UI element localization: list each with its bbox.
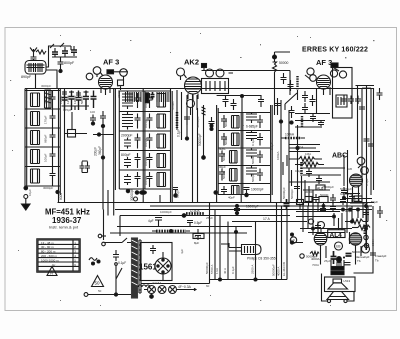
magic eye circle 1: [357, 157, 365, 165]
top circle AF3r 4: [331, 66, 347, 78]
transformer box: [141, 243, 210, 284]
bank3 upper wire: [217, 95, 261, 113]
speaker magnet: [333, 279, 342, 283]
fuse 3: [169, 286, 177, 294]
bank2 cell2 cap: [135, 114, 141, 129]
lamp vert 3: [215, 216, 220, 280]
tube AF3 left: [99, 75, 113, 95]
grid circle AF3 left 2: [86, 73, 93, 80]
det upper cap: [310, 114, 316, 123]
svg-text:5000pF: 5000pF: [290, 189, 294, 199]
svg-text:Tb: Tb: [375, 259, 379, 263]
svg-text:AK2: AK2: [184, 58, 199, 67]
transformer top cap: [150, 245, 156, 254]
bus y202: [58, 202, 375, 204]
bank1 terminal: [24, 195, 28, 199]
output resistor zig2: [352, 225, 370, 230]
bank3 cell1r: [246, 113, 263, 129]
svg-text:0.5μF: 0.5μF: [365, 178, 369, 186]
bus cap 4uF: [148, 218, 162, 227]
screen box AF3 left: [118, 80, 124, 90]
svg-text:0.04μF: 0.04μF: [144, 156, 148, 166]
svg-text:EB: EB: [336, 245, 340, 249]
svg-text:17 A: 17 A: [263, 217, 271, 221]
det hlines: [289, 168, 345, 190]
svg-text:2x0.5A: 2x0.5A: [152, 281, 161, 285]
avc bus a: [279, 100, 282, 203]
bank1 cap 5: [43, 167, 56, 191]
lamp vert 8: [277, 206, 282, 280]
speaker cone upper: [328, 283, 348, 289]
transformer core: [132, 238, 138, 298]
svg-text:125pF: 125pF: [66, 95, 70, 104]
out circle small d: [308, 219, 313, 224]
out cap e: [315, 222, 321, 233]
svg-text:4000 A: 4000 A: [277, 267, 281, 276]
far right vert 1: [357, 85, 359, 155]
svg-text:25μF: 25μF: [206, 216, 213, 220]
bank2 cell3r: [147, 134, 166, 149]
small circle EBa: [335, 242, 343, 250]
lamp vert 6: [251, 222, 256, 280]
svg-text:Philips C8 350-355: Philips C8 350-355: [247, 257, 276, 261]
out vert tubes wires: [347, 203, 368, 234]
bank1 coil cell 2: [31, 112, 40, 126]
bus y221: [232, 217, 307, 222]
bank3 mid bus: [241, 113, 243, 203]
svg-text:2500 A: 2500 A: [251, 265, 255, 274]
output caps top: [320, 194, 336, 211]
dark cap lamp8: [284, 199, 290, 210]
bank2 cell2 coil: [122, 112, 133, 130]
bank2 cell2r coil: [157, 114, 166, 128]
mains switch: [115, 238, 131, 295]
avc cap c: [302, 103, 308, 114]
warning triangle A: [47, 267, 57, 276]
bank1 coil cell 4: [31, 150, 40, 164]
svg-text:D-50A: D-50A: [190, 209, 200, 213]
det upper cap2: [318, 121, 324, 129]
bank2 cell4 coilcap: [124, 153, 141, 168]
output wires top: [290, 203, 318, 245]
osc switch circle 2: [216, 69, 224, 77]
interbank wire A: [64, 89, 66, 203]
rectifier tube: [155, 252, 171, 280]
svg-text:100kA: 100kA: [276, 151, 280, 160]
out comp cluster c: [340, 196, 346, 205]
svg-text:AF 3: AF 3: [103, 58, 119, 67]
svg-text:1000-2000 m: 1000-2000 m: [41, 258, 59, 262]
svg-text:ABC: ABC: [332, 153, 347, 160]
fuse 1: [148, 286, 156, 294]
capacitor 800pF with lead: [58, 57, 75, 73]
bank2 cell1r cap: [147, 93, 153, 108]
svg-text:200pF: 200pF: [94, 147, 98, 156]
bank2 cell1 coil: [122, 91, 133, 109]
svg-text:0.04μF: 0.04μF: [144, 118, 148, 128]
caps mid right a: [302, 91, 308, 102]
svg-text:0.04μF: 0.04μF: [144, 137, 148, 147]
lamp vert 5: [231, 227, 237, 280]
svg-text:40 A: 40 A: [223, 268, 227, 274]
svg-text:80 - 200 m: 80 - 200 m: [41, 250, 56, 254]
wire right top: [275, 52, 291, 115]
avc vertical 1: [275, 98, 281, 115]
dotted resistor mid top: [273, 52, 289, 78]
right bottom vert2: [354, 206, 387, 273]
fuse 2: [158, 286, 166, 294]
output small box: [319, 197, 328, 208]
svg-text:50: 50: [95, 281, 101, 286]
out dots: [312, 215, 368, 230]
mains wire: [88, 242, 131, 296]
bank3 frame: [218, 113, 270, 195]
svg-text:200A: 200A: [371, 239, 375, 246]
svg-text:170pF: 170pF: [44, 115, 48, 124]
tube AK2: [185, 77, 202, 100]
right bottom vert: [363, 210, 369, 250]
det wires down: [344, 150, 359, 203]
right det extra segs: [345, 194, 372, 211]
far right top cap: [377, 88, 383, 100]
svg-text:3000pF: 3000pF: [43, 186, 53, 190]
transformer primary winding: [139, 240, 141, 293]
avc cap b: [289, 106, 295, 124]
avc lines: [289, 145, 320, 152]
warning triangle 50: [92, 276, 104, 287]
misc tiny labels: [28, 84, 375, 293]
interbank cap w dot: [90, 115, 96, 126]
det caps under tube2: [349, 193, 355, 202]
tube output2: [349, 233, 361, 252]
bank2 cell4r: [147, 153, 166, 168]
band filter box: [25, 61, 46, 75]
ground: [22, 199, 31, 211]
pre AF3r resistor: [296, 76, 298, 100]
lamp vert 7: [272, 203, 277, 280]
bank2 left column cap 360pF: [98, 111, 108, 216]
svg-text:0.1μF: 0.1μF: [231, 266, 235, 274]
right mid caps: [371, 200, 383, 218]
table: [37, 239, 80, 272]
bank3 cell2r: [246, 131, 263, 147]
IF coil core bank2: [145, 93, 149, 103]
power left wires: [104, 195, 161, 240]
far right screen caps row: [341, 96, 361, 105]
svg-text:100pF: 100pF: [44, 153, 48, 162]
pickup squiggle: [89, 258, 100, 265]
svg-text:30pF: 30pF: [219, 165, 226, 169]
box KY1: [193, 234, 204, 239]
output transformer: [331, 260, 344, 275]
bank labels extra: [59, 89, 228, 185]
svg-text:10000pF: 10000pF: [251, 188, 264, 192]
det small caps row2: [316, 175, 322, 184]
bank3 cell4: [219, 165, 237, 181]
out wire right verticals: [334, 213, 350, 244]
svg-text:1 kA: 1 kA: [215, 268, 219, 274]
bank2 cell1r coil: [157, 94, 166, 108]
AK2 resistor 0.1: [177, 112, 181, 137]
tube AL4: [314, 222, 327, 253]
bank2 mid bus: [143, 89, 145, 203]
bank3 bottom cap: [244, 188, 264, 197]
far right vert 2: [359, 88, 365, 200]
svg-text:Instr. remn.& pvt: Instr. remn.& pvt: [49, 225, 79, 230]
svg-text:50000: 50000: [224, 136, 228, 145]
avc zigzag resistor: [289, 157, 324, 168]
junction dots bus: [234, 204, 259, 214]
svg-text:800pF: 800pF: [176, 189, 180, 198]
bank2 cell2r cap: [147, 114, 153, 129]
output resistor zig1: [345, 219, 368, 224]
svg-text:100kA: 100kA: [285, 133, 295, 137]
svg-text:0.1μF: 0.1μF: [270, 142, 274, 150]
top cap circle TC: [120, 69, 128, 80]
lamp vert 2: [210, 210, 215, 280]
det upper lines: [295, 114, 330, 128]
bus cap right: [187, 221, 202, 228]
interbank L box: [65, 112, 88, 137]
bank3 cap pair top: [209, 117, 215, 131]
mains terminal: [84, 293, 88, 297]
bank2 cell5r: [147, 172, 166, 187]
divider resistor a: [152, 230, 190, 233]
bank3 cell4r: [246, 166, 263, 182]
svg-text:2000pF: 2000pF: [121, 134, 133, 138]
svg-text:125pF: 125pF: [73, 95, 77, 104]
svg-text:4μF: 4μF: [148, 219, 154, 223]
svg-text:Tb: Tb: [357, 259, 361, 263]
output caps mid: [331, 251, 352, 264]
wire antenna to top bus: [46, 46, 71, 67]
svg-text:40pF: 40pF: [219, 147, 226, 151]
det tube: [350, 174, 363, 187]
svg-text:25μF: 25μF: [324, 259, 331, 263]
bank3 cell3r: [246, 148, 263, 164]
bank3 cell1: [221, 115, 239, 128]
lamp vert 1: [205, 203, 210, 280]
bank1 cap 2: [44, 109, 56, 128]
svg-text:Gr: Gr: [52, 263, 55, 267]
LF circle: [290, 233, 296, 243]
grid circle AF3r 2: [305, 75, 316, 82]
svg-text:200 - 600 m: 200 - 600 m: [41, 254, 58, 258]
mains cap: [113, 250, 126, 265]
svg-text:6-685pF: 6-685pF: [246, 125, 258, 129]
far right vert 5: [358, 86, 374, 191]
caps mid right b: [310, 95, 316, 106]
ballast lamp: [242, 245, 262, 255]
bus y226: [117, 226, 252, 228]
label AL4: [328, 230, 345, 238]
bank1 coil cell 1: [31, 93, 40, 107]
svg-text:25000μF: 25000μF: [322, 185, 334, 189]
svg-text:500pF: 500pF: [80, 95, 84, 104]
svg-text:50000pF: 50000pF: [272, 264, 276, 276]
svg-text:3000pF: 3000pF: [41, 84, 51, 88]
speaker zig left: [310, 252, 320, 262]
magic eye circle 2: [358, 165, 368, 174]
AK2 cap a: [184, 117, 190, 125]
out cluster box2: [297, 200, 304, 210]
svg-text:50000pF: 50000pF: [352, 250, 364, 254]
bank3 left bus: [217, 105, 219, 203]
far right vert 4: [368, 88, 374, 195]
bank2 cell5 coilcap: [124, 172, 141, 187]
svg-text:50μF: 50μF: [371, 200, 378, 204]
avc vert c: [296, 125, 299, 203]
bank3 bottom dot: [214, 191, 217, 194]
speckle noise: [10, 33, 391, 306]
svg-text:0.04μF: 0.04μF: [144, 175, 148, 185]
small circle left c: [300, 254, 318, 259]
out comp cluster b: [330, 203, 336, 213]
det label texts: [295, 169, 334, 197]
svg-text:0.1μF: 0.1μF: [295, 169, 303, 173]
out comp cluster a: [305, 197, 312, 207]
bank2 frame: [119, 91, 170, 189]
bank1 coil cell 3: [31, 131, 40, 145]
resistor R-ant: [36, 50, 46, 54]
GB1819 labels: [296, 187, 353, 213]
bank2 cell1 cap: [135, 93, 141, 108]
flag GB AK2: [202, 64, 207, 71]
svg-text:50: 50: [98, 289, 102, 293]
lamp bottom bus: [210, 278, 288, 281]
svg-text:360pF: 360pF: [98, 146, 102, 155]
pre AF3r caps b: [288, 80, 294, 91]
svg-text:125pF: 125pF: [63, 108, 72, 112]
bank2 cell3 label: [121, 134, 133, 138]
top circle AF3r 3: [330, 70, 337, 77]
bank1 right bus: [56, 89, 63, 203]
GB box: [354, 196, 362, 202]
svg-text:AB: AB: [348, 167, 352, 171]
avc resistor 100k: [281, 133, 305, 139]
svg-text:5700 A: 5700 A: [210, 265, 214, 274]
svg-text:50000: 50000: [320, 193, 329, 197]
svg-text:4F~0.3A: 4F~0.3A: [178, 285, 192, 289]
small box ALB: [316, 185, 325, 190]
bus y216: [120, 215, 290, 217]
svg-text:100: 100: [90, 110, 95, 114]
bank3 left resistor: [198, 105, 206, 159]
det small caps row: [306, 168, 312, 177]
svg-text:500pF: 500pF: [251, 173, 255, 182]
out h wire b: [300, 229, 352, 233]
osc switch circle 1: [206, 69, 214, 77]
bank2 cell3 coilcap: [124, 134, 141, 149]
speaker cone skirt: [327, 292, 349, 300]
svg-text:4μF: 4μF: [180, 249, 184, 254]
bank3 cell3: [219, 147, 237, 163]
grid cap circle AF3 left: [93, 67, 103, 77]
svg-text:50000pF: 50000pF: [196, 116, 200, 128]
avc bus b: [288, 110, 290, 203]
bank1 cap 3: [44, 128, 56, 147]
speaker box: [325, 277, 356, 292]
lamp leads: [221, 243, 242, 251]
capacitor 890pF: [21, 56, 37, 79]
tube AF3 right: [317, 75, 331, 89]
out cluster cap3: [313, 194, 319, 203]
lamp vert 4: [223, 222, 228, 280]
svg-text:50000pF: 50000pF: [205, 262, 209, 274]
output cap pol: [336, 250, 364, 265]
top row caps b: [69, 91, 75, 111]
AK2 wire right2: [197, 108, 199, 203]
bank3 cell5: [221, 186, 239, 200]
svg-text:50000: 50000: [279, 61, 289, 65]
svg-text:30000: 30000: [305, 190, 314, 194]
svg-text:A: A: [50, 271, 53, 276]
wire AK2 top bus: [202, 71, 291, 96]
grid circle AF3r 1: [307, 68, 314, 75]
antenna: [30, 48, 37, 57]
bank2 bottom dots: [126, 188, 146, 201]
bank2 top cap dark: [151, 92, 155, 100]
svg-text:40pF: 40pF: [228, 196, 235, 200]
al4 down wires: [321, 246, 362, 265]
bank1 row frame lines: [25, 91, 60, 187]
bank2 bottom cap right: [173, 188, 180, 199]
svg-text:30000: 30000: [117, 89, 121, 98]
fuse wire: [144, 285, 196, 298]
EB box AF3 left: [107, 70, 128, 74]
svg-text:470kA: 470kA: [171, 101, 175, 110]
output cap labels: [355, 255, 370, 263]
top row caps d: [83, 91, 89, 111]
svg-text:EL-MAXW: EL-MAXW: [282, 262, 286, 276]
top section coil T1: [45, 90, 52, 108]
bank2 cell4 label: [121, 153, 131, 157]
svg-text:50000pF: 50000pF: [282, 187, 286, 199]
bank1 left bus: [24, 89, 28, 191]
svg-text:1MA: 1MA: [305, 152, 311, 156]
svg-text:890pF: 890pF: [21, 75, 32, 79]
svg-text:10000pF: 10000pF: [160, 210, 172, 214]
svg-text:30A: 30A: [298, 145, 303, 149]
top row caps e: [91, 91, 97, 109]
interbank wire y134: [93, 133, 114, 156]
pre AF3r caps a: [281, 73, 287, 84]
speaker terminals: [322, 274, 355, 303]
svg-text:30 - 90 m: 30 - 90 m: [41, 245, 54, 249]
svg-text:800pF: 800pF: [121, 153, 131, 157]
svg-text:8μF: 8μF: [194, 241, 199, 245]
avc resistor vert: [300, 162, 303, 203]
screen rect right: [333, 68, 353, 119]
bus y206: [150, 205, 372, 207]
svg-text:10000pF: 10000pF: [246, 205, 259, 209]
bank3 upper caps b: [231, 99, 237, 110]
svg-text:10μF: 10μF: [28, 189, 32, 196]
svg-text:ALB: ALB: [317, 186, 324, 190]
terminal circle right of table: [98, 234, 106, 238]
label EB flag right: [331, 63, 338, 68]
svg-text:0.1μF: 0.1μF: [177, 129, 181, 137]
avc cap bottom: [282, 187, 300, 200]
AK2 osc circle: [187, 100, 195, 116]
svg-text:50000: 50000: [251, 155, 255, 164]
trimmer cluster: [50, 43, 77, 57]
out h wire a: [296, 212, 340, 217]
bus y233: [110, 232, 247, 234]
bank3 right bus: [271, 105, 273, 203]
far right vert 3: [364, 85, 370, 250]
svg-text:50000: 50000: [224, 118, 228, 127]
